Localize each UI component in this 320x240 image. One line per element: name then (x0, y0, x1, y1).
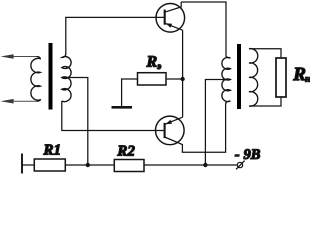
wire T2 secondary bottom to Rn (249, 97, 281, 106)
transformer T2 primary winding (222, 56, 231, 105)
wire T2 center tap to -9V rail (205, 80, 230, 166)
wire T2 primary bottom to collector Q2 (165, 104, 226, 152)
svg-text:R1: R1 (42, 143, 61, 159)
resistor Rn body (276, 58, 286, 97)
transistor Q2 emitter arrow (PNP) (166, 120, 173, 124)
input terminal arrow top (1, 54, 14, 59)
bottom -9V rail (22, 164, 237, 166)
node T2 tap to rail junction (203, 163, 207, 167)
transformer T2 core (237, 44, 241, 109)
node R1-R2 bias junction (86, 163, 90, 167)
wire input top to T1 primary (12, 56, 37, 58)
transformer T2 secondary winding (249, 49, 258, 107)
resistor R1 body (34, 159, 65, 171)
terminal tick left end of rail (21, 154, 23, 174)
wire T1 secondary bottom to base Q2 (62, 101, 165, 131)
wire T2 secondary top to Rn (249, 49, 281, 58)
wire top rail collector Q1 to T2 primary top (181, 2, 226, 56)
wire Re right to emitter line (166, 78, 183, 80)
terminal -9V slash (236, 161, 245, 170)
wire T1 center tap to R1-R2 node (62, 78, 88, 166)
svg-text:н: н (305, 75, 310, 85)
wire emitters junction line (182, 30, 184, 117)
resistor Re body (138, 73, 167, 85)
svg-text:-: - (235, 147, 240, 163)
transistor Q2 base bar (164, 123, 166, 138)
transistor Q2 emitter lead (165, 117, 183, 124)
svg-text:R: R (145, 54, 157, 71)
transistor Q2 circle (156, 116, 185, 145)
svg-text:9В: 9В (244, 147, 261, 163)
ground (112, 106, 133, 109)
wire T1 secondary top to base Q1 (66, 17, 165, 53)
transformer T1 core (49, 43, 53, 110)
transistor Q1 emitter arrow (PNP) (166, 23, 173, 28)
svg-text:R2: R2 (116, 144, 135, 160)
node emitter-Re junction (180, 77, 184, 81)
resistor R2 body (114, 160, 144, 172)
wire input bottom to T1 primary (12, 100, 37, 102)
svg-text:R: R (292, 64, 306, 85)
wire Re left to ground (122, 79, 138, 106)
transistor Q1 base bar (164, 10, 166, 25)
transistor Q1 circle (156, 3, 185, 32)
transformer T1 secondary winding (62, 54, 71, 102)
transformer T1 primary winding (31, 57, 40, 102)
terminal -9V circle (237, 162, 242, 167)
transistor Q1 collector lead (165, 2, 182, 12)
transistor Q1 emitter lead (165, 23, 183, 30)
svg-text:э: э (156, 61, 161, 71)
input terminal arrow bottom (1, 99, 14, 104)
